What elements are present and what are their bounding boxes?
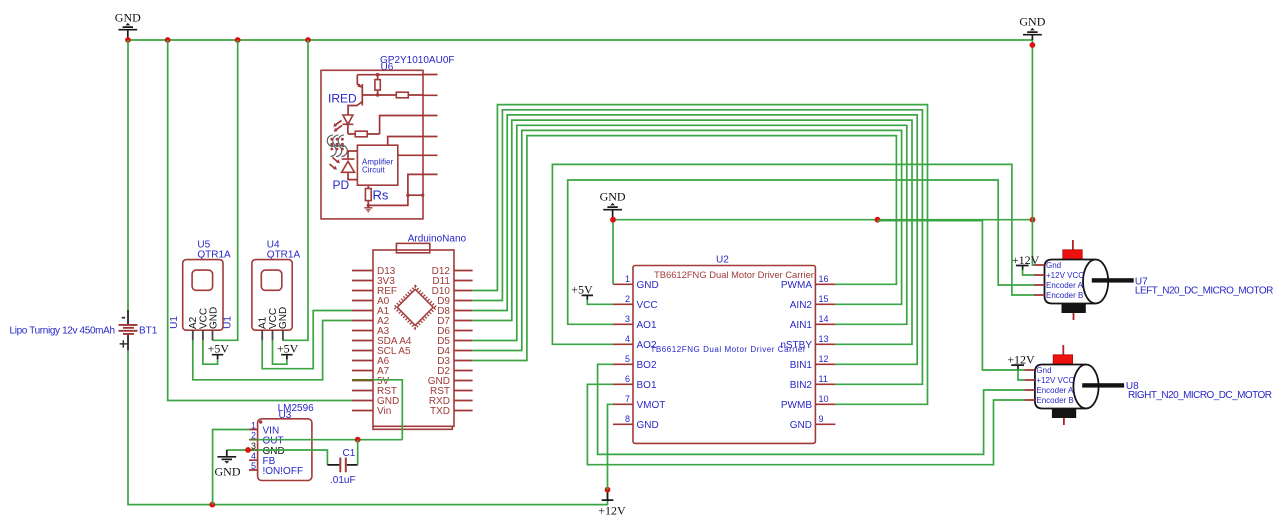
wire battery positive to bottom bus <box>128 350 608 505</box>
wire BO1 to U8 Encoder B <box>587 384 1024 464</box>
svg-text:4: 4 <box>625 334 630 344</box>
svg-text:8: 8 <box>625 414 630 424</box>
svg-text:!ON!OFF: !ON!OFF <box>263 466 304 477</box>
svg-text:13: 13 <box>819 334 829 344</box>
resistor R-top vertical in sensor <box>375 73 380 97</box>
svg-text:BIN1: BIN1 <box>790 360 813 371</box>
svg-text:U6: U6 <box>381 62 394 73</box>
svg-text:+5V: +5V <box>277 342 299 356</box>
svg-text:14: 14 <box>819 314 829 324</box>
svg-text:9: 9 <box>819 414 824 424</box>
sensor U4 QTR1A <box>223 240 301 341</box>
svg-text:AO2: AO2 <box>637 340 657 351</box>
svg-text:C1: C1 <box>343 448 356 459</box>
svg-text:VMOT: VMOT <box>637 400 666 411</box>
svg-text:+5V: +5V <box>571 283 593 297</box>
svg-text:2: 2 <box>625 294 630 304</box>
svg-text:3: 3 <box>625 314 630 324</box>
wire mid GND rail <box>613 219 1033 221</box>
svg-text:+5V: +5V <box>208 342 230 356</box>
svg-text:GND: GND <box>790 420 812 431</box>
svg-text:GND: GND <box>208 307 219 329</box>
wire +12V to U8 VCC <box>1018 369 1024 380</box>
motor U7 LEFT_N20_DC_MICRO_MOTOR <box>1034 240 1273 320</box>
svg-text:7: 7 <box>625 394 630 404</box>
junction node top bus x308 <box>305 37 311 43</box>
op-amp U3 LM2596 regulator <box>249 403 314 481</box>
op-amp U2 TB6612FNG motor driver <box>633 255 815 444</box>
svg-text:11: 11 <box>819 374 828 384</box>
svg-text:PWMB: PWMB <box>781 400 812 411</box>
wire LM2596 GND net <box>227 450 328 465</box>
TB6612 right pin names <box>780 280 812 431</box>
svg-text:GND: GND <box>278 307 289 329</box>
svg-text:TB6612FNG Dual Motor Driver Ca: TB6612FNG Dual Motor Driver Carrier <box>654 269 814 280</box>
resistor in LED path <box>348 116 423 137</box>
power +5V of U4 <box>277 342 299 360</box>
svg-text:+12V VCC: +12V VCC <box>1046 271 1084 280</box>
ground GND top-right <box>1019 15 1045 41</box>
svg-text:PD: PD <box>333 178 350 192</box>
junction node top bus x237.7 <box>235 37 241 43</box>
sensor pin stubs right <box>423 75 438 175</box>
svg-text:RIGHT_N20_MICRO_DC_MOTOR: RIGHT_N20_MICRO_DC_MOTOR <box>1128 390 1272 401</box>
svg-text:+12V VCC: +12V VCC <box>1036 376 1074 385</box>
svg-text:LEFT_N20_DC_MICRO_MOTOR: LEFT_N20_DC_MICRO_MOTOR <box>1135 285 1274 296</box>
Arduino right pin names <box>428 266 451 417</box>
svg-text:10: 10 <box>819 394 829 404</box>
junction node mid GND x877.5 <box>875 217 881 223</box>
wire LM2596 VIN to +12V bus <box>213 430 249 505</box>
Arduino left pin stubs <box>352 271 373 411</box>
wire U5 A2 to Arduino A2 <box>193 321 352 380</box>
svg-text:6: 6 <box>625 374 630 384</box>
svg-text:A1: A1 <box>257 316 268 329</box>
wire sensor second rail with resistor <box>362 92 423 98</box>
svg-text:BO2: BO2 <box>637 360 657 371</box>
svg-text:15: 15 <box>819 294 829 304</box>
svg-text:+12V: +12V <box>598 504 626 518</box>
wire Arduino GND net <box>168 40 352 401</box>
TB6612 right pin numbers <box>819 274 829 424</box>
battery BT1 <box>10 310 158 350</box>
svg-text:VCC: VCC <box>637 300 658 311</box>
power +5V of U5 <box>208 342 230 360</box>
wire Rs loop to sensor edge <box>368 174 424 205</box>
wire D10 to PWMB <box>473 105 928 405</box>
ground GND above TB6612 <box>600 190 626 220</box>
wire D4 to AIN2 <box>473 130 902 350</box>
svg-text:IRED: IRED <box>328 92 357 106</box>
TB6612 right pin stubs <box>815 284 835 424</box>
svg-text:GND: GND <box>637 280 659 291</box>
wire BO2 to U8 Encoder A <box>598 364 1025 454</box>
svg-text:Encoder A: Encoder A <box>1046 281 1084 290</box>
svg-text:Rs: Rs <box>373 188 389 203</box>
capacitor C1 <box>327 448 357 486</box>
wire AO2 to U7 Encoder B <box>552 164 1034 344</box>
Arduino right pin stubs <box>454 271 473 411</box>
svg-text:GND: GND <box>215 465 241 479</box>
svg-text:+12V: +12V <box>1007 352 1035 366</box>
photodiode PD <box>330 151 358 192</box>
svg-text:Vin: Vin <box>377 406 391 417</box>
svg-text:4: 4 <box>251 451 256 461</box>
resistor Rs <box>365 185 388 205</box>
amplifier circuit box <box>357 137 423 186</box>
svg-text:GND: GND <box>1019 15 1045 29</box>
svg-text:GND: GND <box>600 190 626 204</box>
svg-text:5: 5 <box>625 354 630 364</box>
Arduino left pin names <box>377 266 412 417</box>
TB6612 left pin stubs <box>613 284 633 424</box>
power +12V at U7 <box>1012 253 1040 271</box>
svg-text:BO1: BO1 <box>637 380 657 391</box>
junction node mid GND x1032.5 <box>1030 217 1036 223</box>
svg-text:Circuit: Circuit <box>362 166 385 175</box>
svg-text:AIN2: AIN2 <box>790 300 813 311</box>
svg-text:QTR1A: QTR1A <box>267 249 301 260</box>
svg-text:AO1: AO1 <box>637 320 657 331</box>
diagram U6 GP2Y1010AU0F dust sensor <box>321 55 455 219</box>
svg-text:nSTBY: nSTBY <box>780 340 812 351</box>
motor U8 RIGHT_N20_MICRO_DC_MOTOR <box>1024 345 1272 425</box>
svg-text:16: 16 <box>819 274 829 284</box>
ground GND at LM2596 <box>215 450 241 479</box>
ground GND top-left <box>115 11 141 41</box>
svg-text:PWMA: PWMA <box>781 280 812 291</box>
svg-text:12: 12 <box>819 354 829 364</box>
wire U4 A1 to Arduino A1 <box>262 311 352 369</box>
wire GND to TB6612 pin1 <box>612 220 614 285</box>
wire C1 to OUT junction <box>357 440 359 465</box>
power +12V at U8 <box>1007 352 1035 370</box>
wire AO1 to U7 Encoder A <box>568 180 1034 324</box>
power +5V at TB6612 VCC <box>571 283 593 300</box>
diode LED IRED <box>333 115 353 134</box>
wire top-right GND down to U7 Gnd <box>1032 40 1034 265</box>
power +12V bottom <box>598 492 626 517</box>
svg-text:+12V: +12V <box>1012 253 1040 267</box>
junction node top bus x128 <box>125 37 131 43</box>
sensor U5 QTR1A <box>169 240 231 341</box>
svg-text:BT1: BT1 <box>139 326 158 337</box>
svg-text:BIN2: BIN2 <box>790 380 813 391</box>
svg-text:QTR1A: QTR1A <box>197 249 231 260</box>
wire D8 to BIN1 <box>473 115 918 364</box>
dust scatter squiggles <box>327 135 347 157</box>
junction node LM2596 GND pin <box>245 447 251 453</box>
svg-text:GND: GND <box>637 420 659 431</box>
junction node right GND below symbol <box>1030 42 1036 48</box>
svg-text:GND: GND <box>115 11 141 25</box>
junction node mid GND at symbol <box>610 217 616 223</box>
svg-text:5: 5 <box>251 461 256 471</box>
svg-text:Lipo Turnigy 12v 450mAh: Lipo Turnigy 12v 450mAh <box>10 326 116 337</box>
op-amp U1 ArduinoNano <box>373 234 467 430</box>
svg-text:1: 1 <box>625 274 630 284</box>
wire D5 to AIN1 <box>473 125 907 340</box>
svg-text:U1: U1 <box>223 316 234 329</box>
wire +12V to U7 VCC <box>1023 270 1034 276</box>
svg-text:Gnd: Gnd <box>1046 261 1061 270</box>
svg-text:Encoder B: Encoder B <box>1036 396 1073 405</box>
wire D3 to PWMA <box>473 136 897 361</box>
wire LM2596 OUT net <box>249 439 402 441</box>
ground small in sensor <box>364 204 372 212</box>
svg-text:U2: U2 <box>716 255 729 266</box>
svg-text:Gnd: Gnd <box>1036 366 1051 375</box>
svg-text:TXD: TXD <box>430 406 450 417</box>
svg-text:1: 1 <box>251 420 256 430</box>
wire U4 GND net <box>283 40 308 340</box>
svg-text:AIN1: AIN1 <box>790 320 813 331</box>
wire U5 GND net <box>213 40 238 340</box>
junction node top bus x167.7 <box>165 37 171 43</box>
wire VMOT to +12V <box>608 404 614 489</box>
wire U5 VCC to +5V <box>203 340 218 364</box>
TB6612 left pin numbers <box>625 274 630 424</box>
wire U4 VCC to +5V <box>273 340 287 364</box>
wire top GND bus <box>128 39 1032 41</box>
wire battery negative to top bus <box>127 40 129 311</box>
junction node bottom bus x212.3 <box>209 502 215 508</box>
svg-text:Encoder B: Encoder B <box>1046 291 1083 300</box>
junction node OUT/C1 <box>355 437 361 443</box>
wire +5V net Arduino 5V to LM2596 OUT <box>352 380 402 440</box>
wire U8 Gnd to mid GND rail <box>878 221 1025 370</box>
wire D9 to BIN2 <box>473 110 923 385</box>
svg-text:.01uF: .01uF <box>330 475 356 486</box>
junction node +12V bottom <box>605 487 611 493</box>
svg-text:U1: U1 <box>169 316 180 329</box>
wire D7 to nSTBY <box>473 120 912 344</box>
svg-text:Encoder A: Encoder A <box>1036 386 1074 395</box>
TB6612 left pin names <box>637 280 666 431</box>
transistor Q1 IRED driver <box>328 75 362 115</box>
wire +5V to VCC pin2 <box>587 300 613 305</box>
wire sensor internal top rail <box>357 74 423 76</box>
